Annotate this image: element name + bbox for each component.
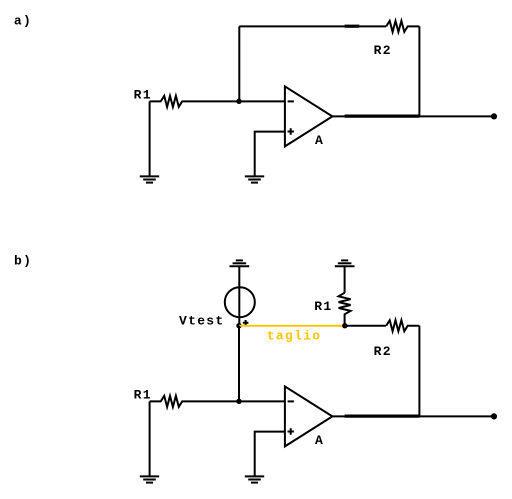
wire Vtest down to inverting node (circuit b) [238,326,240,402]
Vtest label [179,313,225,328]
svg-text:Vtest: Vtest [179,313,225,328]
op-amp A label (circuit a) [315,133,324,148]
resistor R1 vertical (circuit b) zigzag [339,293,351,326]
wire taglio (orange cut wire, circuit b) [239,325,345,327]
node Vtest junction (circuit b) [236,323,241,328]
svg-text:A: A [315,133,324,148]
wire output bold overlap segment (circuit a) [345,114,420,117]
resistor R1 label (circuit a) [134,88,152,103]
wire feedback top horizontal (circuit a) [239,25,386,27]
svg-text:taglio: taglio [267,328,322,343]
wire R2 down to output (circuit b) [418,326,420,417]
ground (circuit a, under R1) [140,176,159,182]
wire noninverting input to ground (circuit a) [255,132,285,176]
taglio label [267,328,322,343]
svg-text:a): a) [14,14,32,29]
svg-text:R1: R1 [134,388,152,403]
plus polarity mark at Vtest (circuit b) [243,320,249,326]
wire noninverting input to ground (circuit b) [255,432,285,476]
svg-text:b): b) [14,253,32,268]
resistor R2 (circuit b) zigzag [386,320,419,331]
svg-text:A: A [315,433,324,448]
ground (circuit b, under R1) [140,476,159,482]
wire feedback right vertical (circuit a) [418,26,420,116]
resistor R2 (circuit a) zigzag [386,21,419,32]
voltage source Vtest circle (circuit b) [225,287,255,317]
resistor R1 (circuit a) zigzag [150,96,285,107]
svg-text:R2: R2 [374,344,392,359]
wire overlap bold segment on top wire (circuit a) [345,25,360,28]
node output terminal (circuit a) [491,113,497,119]
wire Vtest vertical (circuit b) [238,266,240,325]
wire R1 left lead down to ground (circuit b) [149,401,151,476]
op-amp A label (circuit b) [315,433,324,448]
ground (circuit b, above Vtest, inverted) [230,260,250,266]
resistor R1 label (circuit b horizontal) [134,388,152,403]
wire R1 left lead down to ground (circuit a) [149,101,151,176]
node taglio right junction (circuit b) [342,323,347,328]
resistor R2 label (circuit a) [374,43,392,58]
svg-text:R1: R1 [134,88,152,103]
label b) [14,253,32,268]
resistor R1 vertical label (circuit b) [314,299,332,314]
op-amp A (circuit b) [285,386,333,446]
node output terminal (circuit b) [491,413,497,419]
node inverting input junction (circuit a) [236,99,241,104]
node inverting input junction (circuit b) [236,399,241,404]
resistor R1 horizontal (circuit b) zigzag [150,396,285,407]
svg-text:R1: R1 [314,299,332,314]
wire junction to R2 (circuit b) [345,325,386,327]
resistor R2 label (circuit b) [374,344,392,359]
wire feedback left vertical (circuit a) [238,26,240,101]
ground (circuit b, above R1 vertical, inverted) [335,260,355,266]
op-amp A (circuit a) [285,86,333,146]
wire output bold overlap segment (circuit b) [345,415,420,418]
svg-text:R2: R2 [374,43,392,58]
ground (circuit a, under + input) [245,176,264,182]
wire output (circuit b) [332,415,494,417]
ground (circuit b, under + input) [245,476,264,482]
wire ground to R1 vertical (circuit b) [344,266,346,293]
wire output (circuit a) [332,115,494,117]
label a) [14,14,32,29]
